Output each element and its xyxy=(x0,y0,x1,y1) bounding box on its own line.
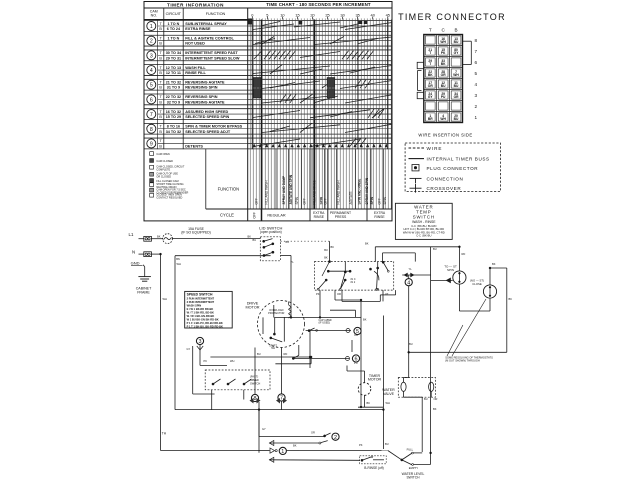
chart mid row lines xyxy=(248,26,392,143)
svg-text:(IF USED): (IF USED) xyxy=(319,322,331,325)
thermostat circle SPIN xyxy=(444,247,490,311)
svg-text:OR: OR xyxy=(454,95,460,99)
svg-text:6: 6 xyxy=(475,60,478,65)
wire speed selector row xyxy=(210,331,310,369)
svg-text:FILL AND WASH: FILL AND WASH xyxy=(265,180,269,205)
svg-text:REVERSING SPIN: REVERSING SPIN xyxy=(185,95,218,99)
svg-text:SPEED SWITCH: SPEED SWITCH xyxy=(187,293,213,297)
svg-text:VT: VT xyxy=(385,292,389,296)
svg-text:34 TO 32: 34 TO 32 xyxy=(166,130,181,134)
svg-text:12 TO 11: 12 TO 11 xyxy=(166,71,181,75)
svg-text:C-C | BK-BU: C-C | BK-BU xyxy=(416,234,431,238)
pump circled 1 xyxy=(259,447,388,455)
svg-text:PU: PU xyxy=(441,95,446,99)
wire to thermostat with butt connectors xyxy=(402,273,430,278)
svg-text:WASH - RINSE: WASH - RINSE xyxy=(412,220,436,224)
svg-text:BK: BK xyxy=(331,245,335,249)
svg-text:REGULAR: REGULAR xyxy=(267,213,286,217)
svg-text:TIMER INFORMATION: TIMER INFORMATION xyxy=(167,2,224,7)
svg-text:WH: WH xyxy=(230,359,234,363)
svg-text:SUB-INTERVAL SPRAY: SUB-INTERVAL SPRAY xyxy=(185,22,227,26)
svg-text:VALVE: VALVE xyxy=(383,392,395,396)
svg-text:CONTACT RESOLVED: CONTACT RESOLVED xyxy=(156,196,182,199)
chart heavy cycle lines xyxy=(252,20,387,221)
svg-text:AGITATE AND SPIN: AGITATE AND SPIN xyxy=(289,174,293,204)
right rail xyxy=(409,268,507,352)
svg-text:PK: PK xyxy=(441,51,446,55)
svg-text:BK: BK xyxy=(509,297,513,301)
lower contact branch xyxy=(269,441,328,446)
circled 8 with motor lead xyxy=(250,348,261,453)
speed switch box SS1 xyxy=(185,291,233,328)
svg-text:WIRE: WIRE xyxy=(427,146,443,151)
svg-text:BK: BK xyxy=(324,256,328,260)
detent triangles row 9 xyxy=(253,144,389,148)
connector left tabs xyxy=(417,62,424,98)
svg-text:OR: OR xyxy=(428,84,434,88)
svg-text:2: 2 xyxy=(334,435,337,441)
junction dots xyxy=(160,246,492,454)
legend crossover xyxy=(410,184,462,193)
wire lid switch out (dotted) xyxy=(281,241,330,261)
svg-text:(open position): (open position) xyxy=(260,230,282,234)
svg-text:GY: GY xyxy=(428,95,434,99)
legend/function divider xyxy=(205,149,207,209)
svg-text:B: B xyxy=(159,86,162,90)
svg-text:W / W 1 BK-GN-RD-BK: W / W 1 BK-GN-RD-BK xyxy=(187,314,215,318)
svg-text:6: 6 xyxy=(150,97,153,103)
svg-text:PK: PK xyxy=(316,292,320,296)
svg-text:PK: PK xyxy=(359,443,363,447)
svg-text:BU: BU xyxy=(433,247,437,251)
svg-text:EMPTY: EMPTY xyxy=(409,466,418,470)
svg-text:WH: WH xyxy=(440,40,446,44)
svg-text:NO.: NO. xyxy=(151,13,157,17)
svg-text:REVERSING SPIN: REVERSING SPIN xyxy=(185,86,218,90)
svg-text:REVERSING AGITATE: REVERSING AGITATE xyxy=(185,81,225,85)
svg-text:BK: BK xyxy=(363,318,367,322)
wire lid switch to motor branch xyxy=(281,256,293,319)
chart time scale xyxy=(250,13,390,20)
svg-text:WH: WH xyxy=(177,262,181,266)
svg-text:2: 2 xyxy=(150,39,153,45)
motor box top entry xyxy=(273,305,275,317)
svg-text:RINSE: RINSE xyxy=(374,215,385,219)
chart corner mark xyxy=(248,19,252,25)
svg-text:2: 2 xyxy=(475,104,478,109)
svg-text:9: 9 xyxy=(150,141,153,147)
svg-text:CIRCUIT: CIRCUIT xyxy=(166,12,182,16)
svg-text:BK: BK xyxy=(293,444,297,448)
svg-text:GY: GY xyxy=(262,427,266,431)
svg-text:BU: BU xyxy=(454,84,459,88)
svg-text:NOT USED: NOT USED xyxy=(185,42,205,46)
svg-text:YL: YL xyxy=(409,267,413,271)
water level switch xyxy=(388,397,431,479)
svg-text:RD: RD xyxy=(462,252,466,256)
cam row 6 xyxy=(144,94,392,105)
svg-text:29 TO 31: 29 TO 31 xyxy=(166,56,181,60)
timer information table frame xyxy=(144,2,392,221)
svg-text:BU: BU xyxy=(454,40,459,44)
svg-text:EXTRA RINSE: EXTRA RINSE xyxy=(185,27,211,31)
svg-text:P 1 T 1 BK-BU, BK-RD RD-BK: P 1 T 1 BK-BU, BK-RD RD-BK xyxy=(187,325,223,329)
cam row 1 xyxy=(144,21,392,32)
svg-text:SELECTED SPEED SPIN: SELECTED SPEED SPIN xyxy=(185,115,229,119)
cam row 3 xyxy=(144,50,392,61)
svg-text:GND: GND xyxy=(131,260,140,265)
chart small markers xyxy=(299,21,302,24)
svg-text:B: B xyxy=(159,27,162,31)
svg-text:(IF SO EQUIPPED): (IF SO EQUIPPED) xyxy=(181,230,211,234)
svg-text:BU: BU xyxy=(385,442,389,446)
water temp switch box xyxy=(395,203,452,239)
svg-text:FILL & AGITATE CONTROL: FILL & AGITATE CONTROL xyxy=(185,36,234,40)
connector cells xyxy=(425,36,461,121)
terminal L1 xyxy=(129,232,152,241)
svg-text:22 TO 32: 22 TO 32 xyxy=(166,95,181,99)
timer motor TM xyxy=(347,366,383,408)
top right feed wires xyxy=(375,247,459,453)
svg-text:CAM CLOSED: CAM CLOSED xyxy=(156,160,173,163)
svg-text:OR: OR xyxy=(441,73,447,77)
svg-text:5: 5 xyxy=(475,71,478,76)
svg-text:B-RINSE (off): B-RINSE (off) xyxy=(364,466,383,470)
svg-text:TIME CHART - 180 SECONDS PER I: TIME CHART - 180 SECONDS PER INCREMENT xyxy=(266,2,371,7)
svg-text:21 TO 32: 21 TO 32 xyxy=(166,81,181,85)
svg-text:TH: TH xyxy=(162,432,167,436)
svg-text:(FAST): (FAST) xyxy=(250,375,258,379)
svg-text:GY: GY xyxy=(187,347,191,351)
svg-text:TIMER CONNECTOR: TIMER CONNECTOR xyxy=(398,12,506,22)
svg-text:B: B xyxy=(159,130,162,134)
svg-text:P 1 F 1 BK-PU, RD-BU RD-BK: P 1 F 1 BK-PU, RD-BU RD-BK xyxy=(187,321,223,325)
svg-text:SPIN: SPIN xyxy=(295,196,299,204)
CYCLE row xyxy=(220,149,386,221)
speed switch contact box xyxy=(205,370,270,410)
svg-text:WH: WH xyxy=(163,297,167,301)
svg-text:SPIN AND RINSE: SPIN AND RINSE xyxy=(357,179,361,205)
svg-text:3 RUN INTERMITTENT: 3 RUN INTERMITTENT xyxy=(187,300,215,304)
svg-text:OFF: OFF xyxy=(324,198,328,204)
svg-text:BU: BU xyxy=(424,397,428,401)
svg-text:1: 1 xyxy=(281,449,284,455)
svg-text:SWITCH: SWITCH xyxy=(413,215,435,220)
svg-text:8 TO 16: 8 TO 16 xyxy=(167,125,180,129)
svg-text:WH: WH xyxy=(453,73,459,77)
svg-text:12 TO 13: 12 TO 13 xyxy=(166,66,181,70)
rail x361 xyxy=(360,300,362,407)
svg-text:B: B xyxy=(159,71,162,75)
svg-text:SPRAY AND DAMP: SPRAY AND DAMP xyxy=(282,175,286,204)
svg-text:OFF: OFF xyxy=(378,198,382,204)
svg-text:DETENTS: DETENTS xyxy=(185,144,203,148)
wires water valve xyxy=(404,352,432,452)
circled 2 branch xyxy=(259,410,339,441)
svg-text:INTERMITTENT SPEED SLOW: INTERMITTENT SPEED SLOW xyxy=(185,56,240,60)
cam row 5 xyxy=(144,79,392,90)
svg-text:BK: BK xyxy=(367,401,371,405)
svg-text:PROTECTOR: PROTECTOR xyxy=(268,311,284,315)
svg-text:BN: BN xyxy=(176,257,180,261)
svg-text:16 TO 32: 16 TO 32 xyxy=(166,110,181,114)
svg-text:SPRAY AND SPIN: SPRAY AND SPIN xyxy=(365,177,369,204)
legend wire xyxy=(409,146,443,151)
svg-text:FILL AND WASH: FILL AND WASH xyxy=(337,180,341,205)
svg-text:5: 5 xyxy=(150,83,153,89)
svg-text:B: B xyxy=(455,28,458,33)
svg-text:COMPLETE: COMPLETE xyxy=(156,168,170,171)
svg-text:1 TO N: 1 TO N xyxy=(167,36,179,40)
svg-text:3: 3 xyxy=(475,93,478,98)
svg-text:7: 7 xyxy=(280,396,283,402)
svg-text:BU: BU xyxy=(454,117,459,121)
function row vertical text xyxy=(255,149,388,209)
svg-text:1: 1 xyxy=(475,115,478,120)
water temp contact box xyxy=(314,261,393,291)
svg-text:T: T xyxy=(429,62,431,66)
svg-text:4: 4 xyxy=(150,68,153,74)
drive motor M1 xyxy=(245,301,304,351)
svg-text:OR CLOSED: OR CLOSED xyxy=(156,175,171,178)
connector pin numbers 8..1 xyxy=(475,38,478,120)
legend internal timer buss xyxy=(409,157,490,162)
svg-text:8: 8 xyxy=(254,396,257,402)
svg-text:SELECTED SPEED ADJT: SELECTED SPEED ADJT xyxy=(185,130,231,134)
svg-text:7: 7 xyxy=(475,49,478,54)
svg-text:CYCLE: CYCLE xyxy=(220,213,234,218)
circled 6 branch xyxy=(292,340,359,363)
svg-text:CAM OPEN: CAM OPEN xyxy=(156,153,170,156)
svg-text:OR: OR xyxy=(354,333,358,337)
wires temp box to motor box xyxy=(320,290,383,317)
svg-text:OR: OR xyxy=(337,292,341,296)
fuse F1 xyxy=(151,234,260,244)
rail x383 xyxy=(382,316,384,450)
connector right bracket xyxy=(463,41,472,64)
wire lower motor branch xyxy=(275,356,312,364)
svg-text:INTERMITTENT SPEED FAST: INTERMITTENT SPEED FAST xyxy=(185,51,238,55)
svg-text:3: 3 xyxy=(150,53,153,59)
svg-text:INTERNAL TIMER BUSS: INTERNAL TIMER BUSS xyxy=(427,157,490,162)
circled 3 and branch xyxy=(193,337,227,394)
svg-text:B: B xyxy=(159,115,162,119)
ground GND xyxy=(131,260,152,294)
svg-text:BU: BU xyxy=(253,238,257,242)
svg-text:BK: BK xyxy=(157,235,161,239)
svg-text:BK: BK xyxy=(433,407,437,411)
svg-text:CROSSOVER: CROSSOVER xyxy=(427,186,462,191)
thermostat circle CLOSE xyxy=(470,268,507,311)
cam row 8 xyxy=(144,123,392,134)
svg-text:SWITCH: SWITCH xyxy=(406,476,420,480)
connector column labels T C B xyxy=(429,28,458,33)
svg-text:MOTOR: MOTOR xyxy=(368,378,382,382)
svg-text:FILL AND RINSE: FILL AND RINSE xyxy=(313,180,317,204)
svg-text:30 TO 34: 30 TO 34 xyxy=(166,51,182,55)
wire N rail xyxy=(151,254,259,450)
svg-text:(M OUT SHOWN) THROUGH: (M OUT SHOWN) THROUGH xyxy=(445,359,480,363)
svg-text:BU: BU xyxy=(286,240,290,244)
svg-text:31 TO 9: 31 TO 9 xyxy=(167,86,180,90)
chart dark cam blocks xyxy=(253,78,261,88)
fuse label xyxy=(181,227,211,234)
legend: cam symbols xyxy=(150,152,189,200)
svg-text:BK: BK xyxy=(441,62,446,66)
svg-text:PLUG CONNECTOR: PLUG CONNECTOR xyxy=(427,166,479,171)
cam row 7 xyxy=(144,109,392,120)
svg-text:N: N xyxy=(132,249,135,254)
svg-text:PK: PK xyxy=(204,359,208,363)
time chart vertical grid xyxy=(250,20,391,210)
svg-text:T: T xyxy=(429,51,431,55)
svg-text:YL: YL xyxy=(291,260,295,264)
svg-text:SPIN & TIMER MOTOR BYPASS: SPIN & TIMER MOTOR BYPASS xyxy=(185,125,242,129)
cam trace diagonals xyxy=(253,22,392,147)
svg-text:RINSE FILL: RINSE FILL xyxy=(185,71,206,75)
svg-text:OR: OR xyxy=(311,431,315,435)
svg-text:BU: BU xyxy=(324,248,328,252)
svg-text:FUNCTION: FUNCTION xyxy=(218,186,240,191)
motor box top rail xyxy=(274,316,361,318)
svg-text:32 TO 9: 32 TO 9 xyxy=(167,100,180,104)
svg-text:RINSE: RINSE xyxy=(314,215,325,219)
svg-text:3: 3 xyxy=(199,339,202,345)
svg-text:FULL: FULL xyxy=(407,447,414,451)
svg-text:4: 4 xyxy=(407,280,410,286)
svg-text:1: 1 xyxy=(150,24,153,30)
svg-text:CLOSE: CLOSE xyxy=(472,282,482,286)
terminal N xyxy=(132,249,151,256)
svg-text:CONNECTION: CONNECTION xyxy=(427,176,464,181)
svg-text:ASSURED HIGH SPEED: ASSURED HIGH SPEED xyxy=(185,110,228,114)
svg-text:6 TO 24: 6 TO 24 xyxy=(167,27,181,31)
svg-text:SPIN: SPIN xyxy=(447,268,454,272)
legend plug connector xyxy=(412,165,478,171)
svg-text:RD: RD xyxy=(284,352,288,356)
svg-text:WASH FILL: WASH FILL xyxy=(185,66,206,70)
B-RINSE contact xyxy=(269,456,386,470)
cam row 9 xyxy=(144,138,392,149)
svg-text:W 1 BU BK-GN BK-RD-BK: W 1 BU BK-GN BK-RD-BK xyxy=(187,318,219,322)
cam row 2 xyxy=(144,35,392,46)
svg-text:T: T xyxy=(429,28,432,33)
svg-text:WH: WH xyxy=(386,401,390,405)
thermostat note xyxy=(445,299,493,363)
svg-text:15 TO 29: 15 TO 29 xyxy=(166,115,181,119)
circled 7 with motor lead xyxy=(276,348,287,410)
svg-text:4: 4 xyxy=(475,82,478,87)
svg-text:BK: BK xyxy=(492,262,496,266)
cam row 4 xyxy=(144,65,392,76)
svg-text:OR: OR xyxy=(434,397,438,401)
svg-text:E / W 1 BK-RD RD-BK: E / W 1 BK-RD RD-BK xyxy=(187,307,214,311)
column headers xyxy=(150,10,226,18)
svg-text:B: B xyxy=(159,144,162,148)
svg-text:BU: BU xyxy=(441,84,446,88)
svg-text:FRAME: FRAME xyxy=(137,290,150,294)
water valve WV xyxy=(382,378,435,398)
svg-text:PRESS: PRESS xyxy=(335,215,347,219)
svg-text:REVERSING AGITATE: REVERSING AGITATE xyxy=(185,100,225,104)
svg-text:WH: WH xyxy=(440,117,446,121)
capacitor and circled 5 xyxy=(306,319,362,335)
symbol legend box xyxy=(405,143,500,192)
circled 4 xyxy=(405,275,412,352)
svg-text:PU: PU xyxy=(354,361,358,365)
svg-text:2 RUN INTERMITTENT: 2 RUN INTERMITTENT xyxy=(187,297,215,301)
wire box left rail xyxy=(175,256,383,410)
svg-text:1 TO N: 1 TO N xyxy=(167,22,179,26)
wire color labels xyxy=(157,235,512,448)
svg-text:BR: BR xyxy=(428,117,433,121)
svg-text:BU: BU xyxy=(257,352,261,356)
svg-text:WASH SPIN: WASH SPIN xyxy=(187,304,202,308)
wire nest below temp box xyxy=(330,290,396,317)
svg-text:BK: BK xyxy=(248,235,252,239)
legend connection xyxy=(410,176,464,183)
svg-text:AGITATE: AGITATE xyxy=(349,191,353,204)
lid switch LS1 xyxy=(260,237,280,261)
svg-text:B: B xyxy=(159,42,162,46)
svg-text:OFF: OFF xyxy=(255,198,259,204)
svg-text:8: 8 xyxy=(475,38,478,43)
svg-text:FUNCTION: FUNCTION xyxy=(206,12,226,16)
svg-text:OFF: OFF xyxy=(303,198,307,204)
svg-text:GY: GY xyxy=(454,51,460,55)
svg-text:OFF: OFF xyxy=(253,212,257,218)
svg-text:B: B xyxy=(159,100,162,104)
svg-text:L1: L1 xyxy=(129,232,134,237)
connector arrow on thermostat wire xyxy=(431,278,453,284)
svg-text:B: B xyxy=(159,56,162,60)
svg-text:WIRE INSERTION SIDE: WIRE INSERTION SIDE xyxy=(418,132,472,137)
svg-text:W / T 1 BK-RD, BD-BK: W / T 1 BK-RD, BD-BK xyxy=(187,311,214,315)
svg-text:BK: BK xyxy=(428,73,433,77)
timer connector body xyxy=(424,35,463,123)
svg-text:#1 2: #1 2 xyxy=(351,281,356,284)
lid switch label xyxy=(259,225,282,234)
svg-text:7: 7 xyxy=(150,112,153,118)
svg-text:8: 8 xyxy=(150,127,153,133)
svg-text:BK: BK xyxy=(365,242,369,246)
svg-text:MOTOR: MOTOR xyxy=(245,305,259,309)
svg-text:BU: BU xyxy=(409,342,413,346)
